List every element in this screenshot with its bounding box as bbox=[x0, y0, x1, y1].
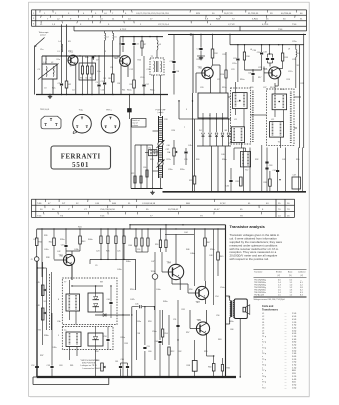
svg-text:—: — bbox=[285, 362, 287, 364]
svg-text:59,TR8,62: 59,TR8,62 bbox=[168, 209, 179, 211]
svg-text:R30: R30 bbox=[155, 244, 158, 246]
svg-text:C27: C27 bbox=[263, 87, 266, 89]
inductor L4a feed bbox=[105, 33, 106, 35]
svg-text:L3: L3 bbox=[58, 51, 60, 53]
svg-text:(V): (V) bbox=[301, 275, 304, 277]
svg-text:1.3: 1.3 bbox=[278, 285, 281, 287]
svg-text:2.2: 2.2 bbox=[300, 285, 303, 287]
svg-text:R57: R57 bbox=[186, 332, 189, 334]
wire: TR8 leads bbox=[54, 259, 63, 261]
wire: verticals joining halves bbox=[178, 100, 180, 119]
svg-text:C43b: C43b bbox=[74, 249, 79, 251]
RC cluster box (R3 R4 C8) bbox=[79, 63, 96, 80]
capacitor C45 bbox=[132, 306, 139, 308]
svg-text:R10: R10 bbox=[138, 60, 141, 62]
svg-text:0.8Ω: 0.8Ω bbox=[292, 342, 297, 344]
wire: links below TR5/TR6 bbox=[228, 96, 231, 98]
svg-text:R42: R42 bbox=[49, 242, 52, 244]
transistor TR7 bbox=[195, 286, 208, 299]
capacitor C16 pair bbox=[173, 35, 175, 61]
wire: long mid rail to right edge (bold) bbox=[163, 191, 307, 193]
svg-text:R15: R15 bbox=[223, 54, 226, 56]
capacitor pair C32 C34 bbox=[267, 54, 269, 58]
svg-text:R11: R11 bbox=[122, 90, 125, 92]
svg-text:C25: C25 bbox=[117, 251, 120, 253]
svg-text:R29: R29 bbox=[189, 180, 192, 182]
svg-text:C18: C18 bbox=[176, 71, 179, 73]
svg-text:C29: C29 bbox=[292, 59, 295, 61]
svg-text:C47: C47 bbox=[151, 261, 154, 263]
RC pair (R30 C28) bbox=[160, 229, 162, 240]
output stage board (dashed) bbox=[62, 327, 113, 350]
resistor R7 bbox=[141, 37, 143, 41]
inductor L1a feed wires bbox=[61, 24, 63, 56]
test point TR2b bbox=[152, 274, 158, 280]
transistor TR5 bbox=[202, 67, 213, 78]
svg-text:R54: R54 bbox=[165, 333, 168, 335]
svg-text:C21: C21 bbox=[217, 79, 220, 81]
svg-text:—: — bbox=[285, 373, 287, 375]
svg-text:1.5: 1.5 bbox=[278, 294, 281, 296]
capacitor C53 bbox=[51, 313, 53, 366]
svg-text:TR6 2N2926o: TR6 2N2926o bbox=[254, 292, 266, 294]
svg-text:C52: C52 bbox=[31, 365, 34, 367]
svg-text:—: — bbox=[285, 367, 287, 369]
svg-text:1.0: 1.0 bbox=[290, 285, 293, 287]
detector box bbox=[292, 177, 301, 189]
transistor TR1 bbox=[68, 55, 78, 65]
svg-text:—: — bbox=[285, 347, 287, 349]
svg-text:C19: C19 bbox=[197, 49, 200, 51]
svg-text:—: — bbox=[285, 359, 287, 361]
wire: lower mid verticals extra bbox=[131, 307, 133, 377]
diode board W7 bbox=[88, 293, 103, 312]
maker label FERRANTI 5501 bbox=[51, 146, 111, 169]
svg-text:C48: C48 bbox=[209, 255, 212, 257]
svg-text:40,TR6,44: 40,TR6,44 bbox=[281, 13, 292, 15]
svg-text:C42: C42 bbox=[282, 159, 285, 161]
svg-text:31,TR5,35: 31,TR5,35 bbox=[248, 13, 259, 15]
svg-text:L7a: L7a bbox=[148, 148, 151, 150]
wire: diode feed bbox=[95, 314, 130, 316]
svg-text:6,T1/3: 6,T1/3 bbox=[262, 24, 269, 26]
svg-text:C11: C11 bbox=[136, 44, 139, 46]
svg-text:1.9Ω: 1.9Ω bbox=[292, 362, 297, 364]
wire: mid earth rail (bold) bbox=[131, 188, 163, 190]
svg-text:C5: C5 bbox=[96, 82, 98, 84]
wire: i.f. strip supply rail bbox=[168, 34, 306, 36]
svg-text:C2,T1,2,L4: C2,T1,2,L4 bbox=[158, 24, 170, 26]
loudspeaker bbox=[234, 299, 247, 319]
svg-text:1.3Ω: 1.3Ω bbox=[292, 353, 297, 355]
svg-text:R4: R4 bbox=[90, 78, 92, 80]
svg-text:T1/4: T1/4 bbox=[292, 24, 297, 26]
svg-text:C9: C9 bbox=[110, 67, 112, 69]
svg-text:C62: C62 bbox=[178, 351, 181, 353]
svg-text:R51: R51 bbox=[182, 309, 185, 311]
svg-text:C53: C53 bbox=[47, 365, 50, 367]
svg-text:24*: 24* bbox=[62, 203, 65, 205]
svg-text:—: — bbox=[285, 376, 287, 378]
svg-text:4.7Ω: 4.7Ω bbox=[292, 365, 297, 367]
svg-text:0.5Ω: 0.5Ω bbox=[292, 319, 297, 321]
svg-text:volume: volume bbox=[132, 125, 138, 127]
svg-text:T2: T2 bbox=[151, 56, 153, 58]
svg-text:C54: C54 bbox=[215, 296, 218, 298]
capacitor C41 bbox=[276, 170, 279, 172]
svg-text:R61: R61 bbox=[70, 365, 73, 367]
svg-text:TR3 2N2926g: TR3 2N2926g bbox=[254, 285, 266, 287]
svg-text:5.8: 5.8 bbox=[300, 287, 303, 289]
svg-text:W1: W1 bbox=[199, 130, 202, 132]
svg-text:L1: L1 bbox=[262, 313, 264, 315]
svg-text:TR5: TR5 bbox=[198, 68, 203, 70]
component location index table (middle) bbox=[32, 198, 295, 200]
RC ladder (R25 C23 group) bbox=[100, 229, 102, 236]
svg-text:# measured on 20kΩ/V: # measured on 20kΩ/V bbox=[82, 368, 101, 370]
svg-text:C35: C35 bbox=[226, 186, 229, 188]
svg-text:R16: R16 bbox=[246, 56, 249, 58]
svg-text:PCB's VHF: PCB's VHF bbox=[156, 110, 167, 112]
svg-text:3.6Ω: 3.6Ω bbox=[292, 356, 297, 358]
svg-text:s: s bbox=[262, 345, 263, 347]
svg-text:3.2Ω: 3.2Ω bbox=[292, 376, 297, 378]
wire: right rail 2 bbox=[230, 44, 304, 46]
svg-text:1.2: 1.2 bbox=[290, 287, 293, 289]
svg-text:TR4: TR4 bbox=[167, 263, 172, 265]
resistor R2 bbox=[66, 56, 68, 81]
tuning gang (ladder) bbox=[158, 116, 160, 178]
svg-text:s: s bbox=[262, 367, 263, 369]
svg-text:8.3: 8.3 bbox=[300, 294, 303, 296]
svg-text:R13: R13 bbox=[197, 59, 200, 61]
wire: tuner left drops bbox=[134, 145, 136, 189]
coil L8 bbox=[295, 45, 297, 50]
capacitor C61 pair bbox=[120, 363, 122, 366]
driver stage board (dashed) bbox=[62, 278, 117, 325]
svg-text:C4,C7,C9,C10,C12,C14,C15,C18: C4,C7,C9,C10,C12,C14,C15,C18 bbox=[136, 13, 169, 15]
svg-text:C40: C40 bbox=[221, 154, 224, 156]
svg-text:C13: C13 bbox=[101, 81, 104, 83]
svg-text:R45: R45 bbox=[36, 282, 39, 284]
svg-text:—: — bbox=[285, 333, 287, 335]
tuning coils L1 L2 (aerial box) bbox=[42, 64, 57, 79]
svg-text:T4/6: T4/6 bbox=[37, 203, 42, 205]
wire: TR5 leads bbox=[211, 65, 213, 69]
svg-text:C39: C39 bbox=[184, 159, 187, 161]
svg-text:0.5Ω: 0.5Ω bbox=[292, 316, 297, 318]
svg-text:—: — bbox=[285, 339, 287, 341]
svg-text:1.1: 1.1 bbox=[290, 292, 293, 294]
capacitor C43 bbox=[65, 229, 67, 245]
wire: lower mid verticals bbox=[139, 252, 141, 258]
svg-text:s: s bbox=[262, 356, 263, 358]
svg-text:—: — bbox=[285, 370, 287, 372]
svg-text:R55: R55 bbox=[125, 343, 128, 345]
svg-text:2.5Ω: 2.5Ω bbox=[292, 313, 297, 315]
thermistor R58 (tall box) bbox=[192, 361, 197, 372]
svg-text:(V): (V) bbox=[278, 275, 281, 277]
svg-text:5.2Ω: 5.2Ω bbox=[292, 359, 297, 361]
wire: top-left supply rail bbox=[42, 55, 120, 57]
svg-text:C50: C50 bbox=[104, 336, 107, 338]
svg-text:0.9Ω: 0.9Ω bbox=[292, 333, 297, 335]
wire: top-left earth rail bbox=[36, 94, 168, 96]
svg-text:R44: R44 bbox=[129, 245, 132, 247]
svg-text:—: — bbox=[300, 280, 302, 282]
svg-text:TR1,3,4,5: TR1,3,4,5 bbox=[40, 109, 50, 111]
resistor R9 bbox=[133, 80, 136, 88]
wire: TR9 leads bbox=[190, 328, 196, 330]
svg-text:C15: C15 bbox=[147, 69, 150, 71]
wire: TR7 leads bbox=[188, 292, 195, 294]
voltage table bbox=[254, 268, 307, 270]
svg-text:L12: L12 bbox=[271, 119, 274, 121]
svg-text:—: — bbox=[285, 330, 287, 332]
svg-text:J1: J1 bbox=[31, 259, 33, 261]
svg-text:M.W. POSITION: M.W. POSITION bbox=[82, 362, 96, 364]
svg-text:s: s bbox=[262, 362, 263, 364]
svg-text:0.2: 0.2 bbox=[290, 280, 293, 282]
svg-text:Telescopic: Telescopic bbox=[39, 32, 50, 34]
svg-text:—: — bbox=[285, 313, 287, 315]
resistor R60 bbox=[212, 364, 215, 372]
resistor R16 bbox=[244, 45, 246, 52]
svg-text:R39: R39 bbox=[44, 235, 47, 237]
svg-text:TR1: TR1 bbox=[69, 52, 74, 54]
wire: bottom supply rail bbox=[37, 228, 226, 230]
svg-text:R3: R3 bbox=[80, 78, 82, 80]
svg-text:R17: R17 bbox=[258, 77, 261, 79]
diode switch row bbox=[197, 118, 231, 120]
svg-text:s: s bbox=[262, 373, 263, 375]
capacitor C2 bbox=[61, 56, 63, 83]
svg-text:C61: C61 bbox=[115, 361, 118, 363]
svg-text:L10: L10 bbox=[238, 101, 241, 103]
svg-text:1.6Ω: 1.6Ω bbox=[292, 387, 297, 389]
svg-text:L4: L4 bbox=[106, 37, 108, 39]
wire: bottom upper rail bbox=[130, 224, 226, 226]
svg-text:R5: R5 bbox=[104, 78, 106, 80]
wire: TR6 leads bbox=[264, 72, 269, 74]
svg-text:R47: R47 bbox=[207, 242, 210, 244]
wire: mid emitter row bbox=[107, 55, 113, 57]
resistor R31 bbox=[240, 177, 243, 186]
svg-text:C32: C32 bbox=[264, 52, 267, 54]
sub-board box (a.m. i.f.) bbox=[198, 93, 228, 118]
svg-text:R23: R23 bbox=[150, 159, 153, 161]
svg-text:C59: C59 bbox=[147, 346, 150, 348]
ground: main earth (top-left) bbox=[49, 95, 51, 97]
wire: driver feeds bbox=[71, 280, 73, 286]
resistor R33 bbox=[269, 179, 272, 186]
svg-text:T16: T16 bbox=[38, 330, 41, 332]
svg-text:86Ω: 86Ω bbox=[292, 370, 296, 372]
svg-text:C47: C47 bbox=[293, 175, 296, 177]
svg-text:1.2: 1.2 bbox=[290, 294, 293, 296]
svg-text:R21: R21 bbox=[301, 83, 304, 85]
svg-text:C4: C4 bbox=[72, 90, 74, 92]
svg-text:2*: 2* bbox=[68, 209, 70, 211]
wire: bottom left long drop bbox=[41, 229, 43, 262]
svg-text:R33: R33 bbox=[264, 182, 267, 184]
svg-text:C65: C65 bbox=[121, 359, 124, 361]
capacitor C5 bbox=[98, 56, 100, 84]
svg-text:C16: C16 bbox=[170, 61, 173, 63]
svg-text:4 T1/2: 4 T1/2 bbox=[120, 29, 127, 31]
svg-text:0.2Ω: 0.2Ω bbox=[292, 345, 297, 347]
diode W10 bbox=[88, 333, 103, 346]
svg-text:—: — bbox=[285, 322, 287, 324]
svg-text:L6: L6 bbox=[114, 37, 116, 39]
svg-text:C36: C36 bbox=[143, 167, 146, 169]
svg-text:C3: C3 bbox=[44, 88, 46, 90]
svg-text:6.3: 6.3 bbox=[300, 292, 303, 294]
svg-text:—: — bbox=[285, 316, 287, 318]
svg-text:2.1Ω: 2.1Ω bbox=[292, 367, 297, 369]
svg-text:T1/4: T1/4 bbox=[278, 29, 283, 31]
svg-text:1.1Ω: 1.1Ω bbox=[292, 336, 297, 338]
svg-text:1.4: 1.4 bbox=[278, 282, 281, 284]
svg-text:0.7Ω: 0.7Ω bbox=[292, 325, 297, 327]
svg-text:—: — bbox=[285, 382, 287, 384]
wire: TR4 base rail bbox=[165, 233, 194, 235]
resistor R49 bbox=[217, 229, 219, 252]
capacitor C19 bbox=[200, 35, 202, 48]
svg-text:R35: R35 bbox=[296, 159, 299, 161]
svg-text:TR2 2N2926o: TR2 2N2926o bbox=[254, 282, 266, 284]
svg-text:5: 5 bbox=[58, 335, 59, 337]
capacitor C17 bbox=[143, 56, 145, 84]
svg-text:C45: C45 bbox=[135, 303, 138, 305]
svg-text:0.6Ω: 0.6Ω bbox=[292, 350, 297, 352]
svg-text:R22: R22 bbox=[131, 173, 134, 175]
capacitor C52 bbox=[35, 366, 39, 368]
RC pair (C26 R28) bbox=[135, 229, 137, 238]
svg-text:0.3Ω: 0.3Ω bbox=[292, 339, 297, 341]
svg-text:C60: C60 bbox=[148, 351, 151, 353]
svg-text:R38: R38 bbox=[46, 257, 49, 259]
svg-text:5: 5 bbox=[68, 51, 69, 53]
wire: left block emitter rail bbox=[95, 55, 120, 57]
svg-text:1.5: 1.5 bbox=[278, 287, 281, 289]
svg-text:8: 8 bbox=[58, 299, 59, 301]
capacitor C38 bbox=[265, 161, 268, 163]
svg-text:R9: R9 bbox=[130, 84, 132, 86]
potentiometer R36 bbox=[101, 363, 104, 371]
svg-text:0.9Ω: 0.9Ω bbox=[292, 385, 297, 387]
svg-text:s: s bbox=[262, 379, 263, 381]
svg-text:L6: L6 bbox=[250, 49, 252, 51]
svg-text:—: — bbox=[285, 328, 287, 330]
svg-text:—: — bbox=[285, 325, 287, 327]
svg-text:C40: C40 bbox=[167, 145, 170, 147]
svg-text:R25: R25 bbox=[106, 251, 109, 253]
svg-text:T12: T12 bbox=[245, 169, 248, 171]
wire: right boundary bbox=[225, 225, 227, 377]
svg-text:R48: R48 bbox=[36, 305, 39, 307]
svg-text:Transistor analysis: Transistor analysis bbox=[230, 224, 265, 229]
svg-text:R7: R7 bbox=[144, 44, 146, 46]
svg-text:2: 2 bbox=[46, 59, 47, 61]
capacitor C11 bbox=[133, 37, 135, 43]
svg-text:1.1: 1.1 bbox=[290, 282, 293, 284]
svg-text:—: — bbox=[285, 342, 287, 344]
svg-text:R24: R24 bbox=[172, 130, 175, 132]
svg-text:C43: C43 bbox=[61, 245, 64, 247]
svg-text:C6: C6 bbox=[85, 78, 87, 80]
svg-text:C24: C24 bbox=[257, 52, 260, 54]
svg-text:R62: R62 bbox=[227, 368, 230, 370]
ground: tuner earth bbox=[152, 191, 154, 193]
svg-text:1.6: 1.6 bbox=[278, 289, 281, 291]
resistor R42 bbox=[53, 229, 55, 238]
transformer T2 (osc coil, dashed can) bbox=[150, 58, 164, 75]
transistor TR9 bbox=[196, 322, 209, 335]
svg-text:TR9: TR9 bbox=[197, 320, 202, 322]
svg-text:T1/4: T1/4 bbox=[37, 215, 42, 217]
svg-text:R46: R46 bbox=[186, 249, 189, 251]
svg-text:C25: C25 bbox=[258, 67, 261, 69]
resistor R40 bbox=[36, 229, 38, 238]
switch note box bbox=[132, 119, 147, 128]
transistor TR6 bbox=[269, 67, 281, 79]
capacitor C10 bbox=[122, 37, 124, 43]
component location index table (top) bbox=[32, 9, 307, 11]
svg-text:with respect to the positive r: with respect to the positive rail. bbox=[230, 257, 270, 261]
resistor R14 bbox=[225, 70, 227, 78]
svg-text:1.3: 1.3 bbox=[290, 289, 293, 291]
svg-text:C46: C46 bbox=[107, 299, 110, 301]
transistor TR4 bbox=[168, 264, 183, 279]
resistor R43 body bbox=[79, 236, 82, 244]
svg-text:C30: C30 bbox=[253, 50, 256, 52]
transformer T5 bbox=[240, 152, 250, 167]
svg-text:R12: R12 bbox=[214, 53, 217, 55]
svg-text:R8: R8 bbox=[108, 78, 110, 80]
capacitor C49 bbox=[158, 341, 161, 343]
resistor R47 bbox=[204, 229, 206, 238]
svg-text:C14: C14 bbox=[101, 90, 104, 92]
wire: a.f. node rail bbox=[90, 258, 136, 260]
svg-text:(V): (V) bbox=[289, 275, 292, 277]
capacitor C46 bbox=[109, 302, 112, 304]
resistor R52 bbox=[168, 347, 170, 355]
svg-text:TR5 2N2926o: TR5 2N2926o bbox=[254, 289, 266, 291]
svg-text:C31: C31 bbox=[296, 65, 299, 67]
svg-text:FERRANTI: FERRANTI bbox=[61, 153, 101, 160]
svg-text:R53: R53 bbox=[148, 321, 151, 323]
potentiometer R24a bbox=[173, 148, 175, 156]
svg-text:1.4: 1.4 bbox=[278, 292, 281, 294]
transformer T7 primary bbox=[66, 294, 80, 311]
capacitor C13 bbox=[104, 56, 106, 82]
svg-text:L7: L7 bbox=[262, 330, 264, 332]
wire: left boundary of i.f. board bbox=[192, 35, 194, 94]
svg-text:52Ω: 52Ω bbox=[292, 373, 296, 375]
svg-text:W9: W9 bbox=[100, 282, 103, 284]
svg-text:0.4Ω: 0.4Ω bbox=[292, 379, 297, 381]
volume control R45 bbox=[49, 274, 51, 330]
svg-text:0.4Ω: 0.4Ω bbox=[292, 328, 297, 330]
svg-text:R63: R63 bbox=[218, 339, 221, 341]
svg-text:C63: C63 bbox=[59, 365, 62, 367]
svg-text:R14: R14 bbox=[221, 74, 224, 76]
svg-text:C47b: C47b bbox=[130, 299, 135, 301]
svg-text:C26: C26 bbox=[248, 73, 251, 75]
capacitor C50 bbox=[106, 339, 109, 341]
svg-text:TR1 2N2926g: TR1 2N2926g bbox=[254, 280, 266, 282]
